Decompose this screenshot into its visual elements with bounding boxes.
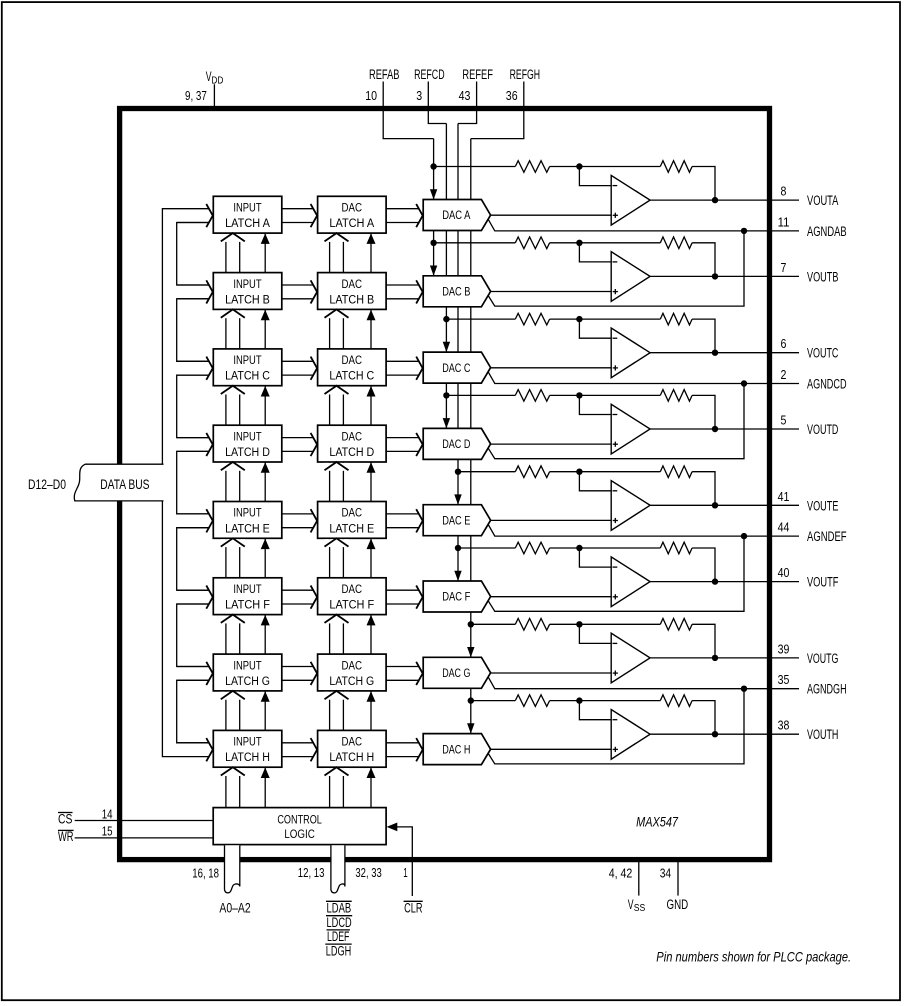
wire: dac-latch column control line	[370, 233, 372, 808]
arrowhead: into DAC H	[416, 738, 423, 761]
chip boundary MAX547	[120, 109, 770, 860]
arrowhead: control line into dac latch D bottom	[367, 462, 376, 473]
node: row H inverting junction dot	[576, 697, 582, 703]
wire: AGNDAB line from DAC A	[488, 219, 799, 231]
svg-text:LATCH A: LATCH A	[225, 218, 270, 230]
input latch E	[213, 502, 281, 539]
wire: DAC A output to op-amp + input	[490, 214, 611, 216]
node: row G output junction dot	[712, 655, 718, 661]
svg-text:1: 1	[403, 865, 407, 880]
node: row H output junction dot	[712, 731, 718, 737]
svg-text:6: 6	[781, 336, 787, 351]
dac latch D	[318, 425, 387, 462]
arrowhead: data bus into input latch H	[206, 738, 213, 761]
arrowhead: control line into dac latch E bottom	[367, 539, 376, 550]
wire: row C inverting input jog	[579, 319, 611, 338]
resistor R1B (input)	[515, 237, 549, 249]
svg-text:LDEF: LDEF	[327, 929, 349, 944]
svg-text:DAC: DAC	[342, 203, 363, 215]
svg-text:DAC: DAC	[342, 584, 363, 596]
wire: DAC H analog ground riser	[488, 689, 744, 764]
svg-text:VOUTC: VOUTC	[807, 346, 839, 361]
wire: DAC F analog ground riser	[488, 536, 744, 611]
DAC G (pentagon)	[423, 657, 490, 688]
svg-text:VOUTF: VOUTF	[807, 575, 838, 590]
svg-text:5: 5	[781, 413, 787, 428]
arrowhead: bus arrow into input latch A bottom	[221, 234, 245, 242]
wire: data bus chain segment rows C-D	[177, 375, 209, 438]
dac latch A	[318, 196, 387, 233]
wire: dac latch F to DAC F bus pair	[386, 589, 419, 591]
arrowhead: REF arrow into DAC A	[430, 189, 437, 199]
resistor R1E (input)	[515, 466, 549, 478]
svg-text:LDAB: LDAB	[327, 901, 352, 916]
wire: row E inverting input jog	[579, 472, 611, 491]
svg-text:12, 13: 12, 13	[298, 865, 325, 880]
arrowhead: bus arrow into input latch F bottom	[221, 616, 245, 624]
DAC H (pentagon)	[423, 734, 490, 765]
svg-text:41: 41	[778, 489, 790, 504]
arrowhead: REF arrow into DAC F	[454, 571, 461, 581]
node: AGND junction dot row F	[741, 533, 747, 539]
label LDAB	[326, 900, 352, 902]
svg-text:INPUT: INPUT	[233, 508, 261, 520]
svg-text:WR: WR	[58, 829, 74, 844]
wire: input latch A to dac latch A bus pair	[282, 208, 314, 210]
wire: REFEF vertical bus	[457, 124, 459, 582]
wire: dac latch H to DAC H bus pair	[386, 742, 419, 744]
arrowhead: control line into input latch G bottom	[261, 691, 270, 702]
power pin VSS	[638, 862, 640, 896]
wire: row B feedback to output	[692, 243, 715, 277]
svg-text:LDCD: LDCD	[327, 915, 352, 930]
svg-text:40: 40	[778, 565, 790, 580]
wire: row C op-amp output to VOUTC pin	[650, 352, 799, 354]
wire: row F resistor junction to feedback resistor	[550, 547, 661, 549]
wire: row A feedback to output	[692, 167, 715, 201]
arrowhead: bus arrow into dac latch D bottom	[324, 463, 348, 471]
node: row D output junction dot	[712, 426, 718, 432]
svg-text:LATCH E: LATCH E	[329, 523, 374, 535]
arrowhead: into dac latch F	[311, 586, 318, 609]
svg-text:15: 15	[102, 823, 113, 838]
wire: row F op-amp output to VOUTF pin	[650, 581, 799, 583]
arrowhead: into dac latch E	[311, 509, 318, 532]
arrowhead: REF arrow into DAC H	[467, 723, 474, 733]
svg-text:INPUT: INPUT	[233, 203, 261, 215]
arrowhead: data bus into input latch C	[206, 357, 213, 380]
ribbon: LDAB/LDCD/LDEF/LDGH load inputs	[331, 845, 345, 893]
svg-text:CS: CS	[58, 812, 72, 827]
wire: DAC B output to op-amp + input	[490, 291, 611, 293]
wire: row A resistor junction to feedback resistor	[550, 166, 661, 168]
svg-text:AGNDAB: AGNDAB	[807, 224, 847, 239]
svg-text:14: 14	[102, 807, 113, 822]
arrowhead: REF arrow into DAC C	[443, 342, 450, 352]
input latch F	[213, 578, 281, 615]
svg-text:Pin numbers shown for PLCC pac: Pin numbers shown for PLCC package.	[656, 949, 851, 965]
dac latch C	[318, 349, 387, 386]
DAC E (pentagon)	[423, 505, 490, 536]
resistor R1C (input)	[515, 313, 549, 325]
svg-text:VOUTA: VOUTA	[807, 193, 838, 208]
control logic block	[213, 808, 386, 845]
node: row E output junction dot	[712, 502, 718, 508]
wire: data bus branch pair into input latch D	[177, 437, 209, 439]
svg-text:REFGH: REFGH	[510, 67, 540, 82]
wire: data bus branch pair into input latch C	[177, 360, 209, 362]
node: row F output junction dot	[712, 578, 718, 584]
wire: REFEF pin stub and jog	[458, 82, 477, 124]
op-amp U3 row C	[611, 328, 650, 378]
wire: dac latch E to DAC E bus pair	[386, 513, 419, 515]
svg-text:DAC E: DAC E	[442, 515, 470, 527]
op-amp U1 row A	[611, 175, 650, 225]
arrowhead: bus arrow into input latch G bottom	[221, 692, 245, 700]
arrowhead: control line into input latch F bottom	[261, 615, 270, 626]
pin 15 WR input	[75, 837, 214, 839]
arrowhead: into DAC C	[416, 357, 423, 380]
wire: row A op-amp output to VOUTA pin	[650, 199, 799, 201]
svg-text:LOGIC: LOGIC	[284, 829, 315, 841]
node: row C output junction dot	[712, 350, 718, 356]
resistor R2G (feedback)	[660, 619, 692, 631]
wire: dac latch A to DAC A bus pair	[386, 208, 419, 210]
arrowhead: into DAC A	[416, 204, 423, 227]
arrowhead: into dac latch C	[311, 357, 318, 380]
arrowhead: REF arrow into DAC G	[467, 647, 474, 657]
resistor R1A (input)	[515, 161, 549, 173]
svg-text:REFCD: REFCD	[414, 67, 445, 82]
resistor R1H (input)	[515, 695, 549, 707]
wire: REF feed line row B	[434, 242, 516, 244]
svg-text:DAC: DAC	[342, 508, 363, 520]
wire: row E feedback to output	[692, 472, 715, 506]
svg-text:INPUT: INPUT	[233, 584, 261, 596]
svg-text:DATA BUS: DATA BUS	[100, 477, 149, 492]
arrowhead: into DAC D	[416, 433, 423, 456]
op-amp U4 row D	[611, 404, 650, 454]
arrowhead: into DAC B	[416, 280, 423, 303]
svg-text:DAC F: DAC F	[442, 592, 470, 604]
svg-text:GND: GND	[667, 897, 689, 912]
svg-text:2: 2	[781, 367, 787, 382]
arrowhead: data bus into input latch G	[206, 662, 213, 685]
wire: REF feed line row A	[434, 166, 516, 168]
wire: data bus branch pair into input latch F	[177, 589, 209, 591]
svg-text:REFAB: REFAB	[369, 67, 400, 82]
arrowhead: control line into input latch B bottom	[261, 310, 270, 321]
arrowhead: bus arrow into dac latch E bottom	[324, 539, 348, 547]
svg-text:LATCH C: LATCH C	[329, 371, 374, 383]
wire: row C resistor junction to feedback resistor	[550, 318, 661, 320]
wire: DAC C output to op-amp + input	[490, 367, 611, 369]
wire: input latch B to dac latch B bus pair	[282, 284, 314, 286]
power pin VDD	[213, 84, 215, 106]
dac latch E	[318, 502, 387, 539]
svg-text:32, 33: 32, 33	[355, 865, 381, 880]
wire: input latch E to dac latch E bus pair	[282, 513, 314, 515]
svg-text:VOUTE: VOUTE	[807, 498, 838, 513]
arrowhead: bus arrow into dac latch F bottom	[324, 616, 348, 624]
node: row C inverting junction dot	[576, 316, 582, 322]
arrowhead: control line into input latch A bottom	[261, 233, 270, 244]
wire: DAC E output to op-amp + input	[490, 519, 611, 521]
wire: REFGH pin stub and jog	[471, 82, 524, 139]
arrowhead: bus arrow into input latch E bottom	[221, 539, 245, 547]
wire: DAC F output to op-amp + input	[490, 596, 611, 598]
wire: row H op-amp output to VOUTH pin	[650, 733, 799, 735]
node: row A output junction dot	[712, 197, 718, 203]
resistor R1G (input)	[515, 619, 549, 631]
svg-text:A0–A2: A0–A2	[219, 901, 250, 916]
wire: row A inverting input jog	[579, 167, 611, 186]
wire: data bus outer vertical (to input latch A)	[162, 209, 209, 465]
op-amp U7 row G	[611, 633, 650, 683]
wire: row H feedback to output	[692, 701, 715, 735]
arrowhead: data bus into input latch F	[206, 586, 213, 609]
wire: REF feed line row H	[471, 700, 516, 702]
wire: input-latch column bus shaft lines	[225, 233, 227, 808]
wire: DAC D output to op-amp + input	[490, 443, 611, 445]
svg-text:LATCH A: LATCH A	[329, 218, 374, 230]
arrowhead: control line into dac latch G bottom	[367, 691, 376, 702]
wire: row B resistor junction to feedback resistor	[550, 242, 661, 244]
input latch G	[213, 654, 281, 691]
wire: input-latch column control line	[264, 233, 266, 808]
DAC B (pentagon)	[423, 276, 490, 307]
svg-text:LATCH F: LATCH F	[225, 600, 270, 612]
arrowhead: REF arrow into DAC B	[430, 266, 437, 276]
svg-text:LATCH G: LATCH G	[329, 676, 374, 688]
node: row F inverting junction dot	[576, 545, 582, 551]
arrowhead: bus arrow into input latch C bottom	[221, 387, 245, 395]
svg-text:DAC: DAC	[342, 279, 363, 291]
wire: REF feed line row G	[471, 623, 516, 625]
op-amp U5 row E	[611, 481, 650, 531]
arrowhead: data bus into input latch E	[206, 509, 213, 532]
arrowhead: control line into input latch E bottom	[261, 539, 270, 550]
arrowhead: bus arrow into input latch D bottom	[221, 463, 245, 471]
resistor R1D (input)	[515, 390, 549, 402]
input latch C	[213, 349, 281, 386]
wire: dac latch C to DAC C bus pair	[386, 360, 419, 362]
svg-text:DAC G: DAC G	[442, 668, 470, 680]
wire: DAC D analog ground riser	[488, 384, 744, 459]
arrowhead: bus arrow into dac latch A bottom	[324, 234, 348, 242]
wire: data bus chain segment rows F-G	[177, 604, 209, 667]
svg-text:INPUT: INPUT	[233, 355, 261, 367]
DAC F (pentagon)	[423, 581, 490, 612]
op-amp U6 row F	[611, 557, 650, 607]
node: REFCD junction dot row C	[443, 316, 449, 322]
input latch H	[213, 730, 281, 767]
svg-text:LATCH F: LATCH F	[329, 600, 374, 612]
wire: data bus chain segment rows B-C	[177, 299, 209, 362]
svg-text:V: V	[628, 897, 634, 912]
pin 1 CLR input	[397, 827, 412, 896]
svg-text:DAC A: DAC A	[442, 210, 470, 222]
node: REFAB junction dot row B	[430, 240, 436, 246]
wire: row D feedback to output	[692, 395, 715, 429]
node: REFAB junction dot row A	[430, 163, 436, 169]
node: row G inverting junction dot	[576, 621, 582, 627]
arrowhead: control line into input latch D bottom	[261, 462, 270, 473]
resistor R2F (feedback)	[660, 542, 692, 554]
wire: row G resistor junction to feedback resistor	[550, 623, 661, 625]
wire: REF feed line row E	[458, 471, 515, 473]
wire: REF feed line row D	[446, 394, 515, 396]
svg-text:AGNDGH: AGNDGH	[807, 682, 847, 697]
arrowhead: data bus into input latch D	[206, 433, 213, 456]
wire: row B op-amp output to VOUTB pin	[650, 275, 799, 277]
wire: dac latch G to DAC G bus pair	[386, 666, 419, 668]
ribbon: A0-A2 address inputs	[225, 845, 240, 893]
arrowhead: into dac latch B	[311, 280, 318, 303]
arrowhead: bus arrow into input latch H bottom	[221, 768, 245, 776]
wire: REF feed line row F	[458, 547, 515, 549]
node: row E inverting junction dot	[576, 469, 582, 475]
svg-text:36: 36	[506, 88, 518, 103]
svg-text:DAC: DAC	[342, 660, 363, 672]
arrowhead: control line into dac latch A bottom	[367, 233, 376, 244]
wire: REFGH vertical bus	[470, 139, 472, 734]
svg-text:REFEF: REFEF	[462, 67, 493, 82]
svg-text:INPUT: INPUT	[233, 737, 261, 749]
dac latch H	[318, 730, 387, 767]
resistor R2H (feedback)	[660, 695, 692, 707]
wire: row B inverting input jog	[579, 243, 611, 262]
arrowhead: control line into input latch H bottom	[261, 768, 270, 779]
svg-text:DAC: DAC	[342, 431, 363, 443]
op-amp U8 row H	[611, 710, 650, 760]
resistor R1F (input)	[515, 542, 549, 554]
svg-text:LATCH G: LATCH G	[225, 676, 270, 688]
svg-text:LATCH H: LATCH H	[329, 752, 374, 764]
wire: data bus branch pair into input latch B	[177, 284, 209, 286]
input latch A	[213, 196, 281, 233]
svg-text:LATCH D: LATCH D	[329, 447, 374, 459]
svg-text:LATCH E: LATCH E	[225, 523, 270, 535]
svg-text:35: 35	[778, 672, 790, 687]
wire: REFAB vertical bus	[433, 139, 435, 276]
arrowhead: REF arrow into DAC E	[454, 494, 461, 504]
wire: DAC H output to op-amp + input	[490, 748, 611, 750]
svg-text:AGNDEF: AGNDEF	[807, 529, 847, 544]
wire: data bus chain segment rows D-E	[177, 451, 209, 514]
arrowhead: into DAC E	[416, 509, 423, 532]
wire: AGNDCD line from DAC C	[488, 372, 799, 384]
dac latch G	[318, 654, 387, 691]
svg-text:LDGH: LDGH	[326, 943, 351, 958]
DAC D (pentagon)	[423, 428, 490, 459]
wire: data bus branch pair into input latch E	[177, 513, 209, 515]
wire: REFCD pin stub and jog	[428, 82, 446, 124]
arrowhead: into DAC F	[416, 586, 423, 609]
svg-text:DD: DD	[211, 75, 223, 86]
DAC C (pentagon)	[423, 352, 490, 383]
wire: row G feedback to output	[692, 624, 715, 658]
wire: REFCD vertical bus	[445, 124, 447, 429]
wire: data bus chain segment rows E-F	[177, 528, 209, 591]
svg-text:4, 42: 4, 42	[609, 866, 633, 881]
svg-text:9, 37: 9, 37	[185, 88, 207, 103]
arrowhead: data bus into input latch A	[206, 204, 213, 227]
svg-text:LATCH C: LATCH C	[225, 371, 270, 383]
resistor R2B (feedback)	[660, 237, 692, 249]
resistor R2C (feedback)	[660, 313, 692, 325]
svg-text:DAC: DAC	[342, 737, 363, 749]
arrowhead: into dac latch D	[311, 433, 318, 456]
arrowhead: into dac latch A	[311, 204, 318, 227]
svg-text:16, 18: 16, 18	[192, 866, 219, 881]
arrowhead: REF arrow into DAC D	[443, 418, 450, 428]
svg-text:43: 43	[459, 88, 471, 103]
DAC A (pentagon)	[423, 200, 490, 231]
wire: DAC G output to op-amp + input	[490, 672, 611, 674]
wire: row D op-amp output to VOUTD pin	[650, 428, 799, 430]
node: REFEF junction dot row F	[455, 545, 461, 551]
op-amp U2 row B	[611, 252, 650, 302]
node: REFGH junction dot row H	[468, 697, 474, 703]
wire: input latch F to dac latch F bus pair	[282, 589, 314, 591]
wire: row D inverting input jog	[579, 395, 611, 414]
svg-text:34: 34	[660, 865, 671, 880]
svg-text:VOUTG: VOUTG	[807, 651, 838, 666]
svg-text:11: 11	[778, 214, 790, 229]
wire: AGNDGH line from DAC G	[488, 677, 799, 689]
wire: row H resistor junction to feedback resistor	[550, 700, 661, 702]
svg-text:LATCH B: LATCH B	[225, 294, 270, 306]
wire: row G inverting input jog	[579, 624, 611, 643]
label LDCD	[326, 915, 352, 917]
svg-text:3: 3	[416, 88, 422, 103]
svg-text:LATCH D: LATCH D	[225, 447, 270, 459]
arrowhead: into dac latch G	[311, 662, 318, 685]
svg-text:VOUTH: VOUTH	[807, 727, 838, 742]
node: row A inverting junction dot	[576, 163, 582, 169]
arrowhead: bus arrow into dac latch G bottom	[324, 692, 348, 700]
arrowhead: data bus into input latch B	[206, 280, 213, 303]
node: row B inverting junction dot	[576, 240, 582, 246]
wire: AGNDEF line from DAC E	[488, 525, 799, 537]
svg-text:39: 39	[778, 641, 790, 656]
arrowhead: into dac latch H	[311, 738, 318, 761]
node: AGND junction dot row H	[741, 686, 747, 692]
svg-text:DAC C: DAC C	[442, 363, 470, 375]
svg-text:DAC H: DAC H	[442, 744, 470, 756]
svg-text:MAX547: MAX547	[636, 814, 678, 829]
wire: row G op-amp output to VOUTG pin	[650, 657, 799, 659]
wire: data bus chain segment rows G-H	[177, 680, 209, 743]
svg-text:7: 7	[781, 260, 787, 275]
wire: dac-latch column bus shaft lines	[329, 233, 331, 808]
svg-text:DAC: DAC	[342, 355, 363, 367]
resistor R2E (feedback)	[660, 466, 692, 478]
arrowhead: bus arrow into input latch B bottom	[221, 310, 245, 318]
label LDGH	[325, 943, 351, 945]
node: REFCD junction dot row D	[443, 392, 449, 398]
arrowhead: control line into dac latch H bottom	[367, 768, 376, 779]
wire: row E op-amp output to VOUTE pin	[650, 504, 799, 506]
wire: REF feed line row C	[446, 318, 515, 320]
wire: input latch D to dac latch D bus pair	[282, 437, 314, 439]
svg-text:AGNDCD: AGNDCD	[807, 377, 847, 392]
svg-text:INPUT: INPUT	[233, 279, 261, 291]
svg-text:44: 44	[778, 520, 790, 535]
wire: REFAB pin stub and jog	[383, 82, 433, 139]
svg-text:CONTROL: CONTROL	[277, 815, 322, 827]
